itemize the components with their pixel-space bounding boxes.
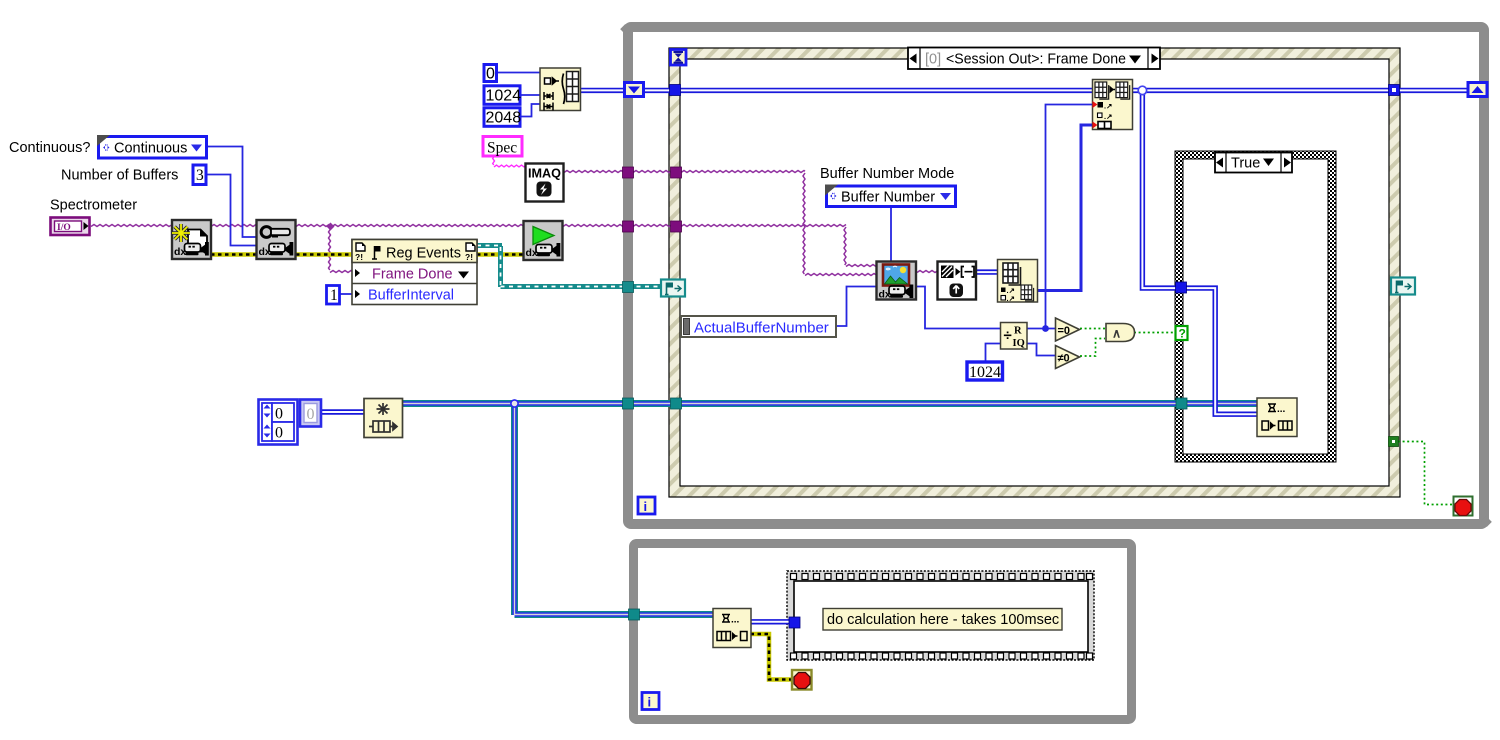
case structure border (True case) bbox=[1175, 151, 1336, 462]
case selector label True bbox=[1215, 153, 1292, 173]
svg-text:Continuous?: Continuous? bbox=[9, 140, 90, 156]
tunnel: array into event (blue solid) bbox=[670, 85, 681, 96]
tunnel: queue (loop2 border) bbox=[629, 609, 640, 620]
wire: index array out (thicker) bbox=[1037, 125, 1092, 291]
svg-text:?!: ?! bbox=[355, 252, 363, 262]
node IMAQdx Configure Acquisition bbox=[257, 220, 296, 259]
svg-text:0: 0 bbox=[275, 406, 283, 423]
event structure border bbox=[669, 48, 1400, 497]
tunnel: session wire (event border) bbox=[671, 221, 682, 232]
svg-text:<Session Out>: Frame Done: <Session Out>: Frame Done bbox=[946, 52, 1126, 68]
svg-text:Reg Events: Reg Events bbox=[386, 246, 461, 262]
svg-text:i: i bbox=[644, 499, 648, 514]
svg-text:.↗: .↗ bbox=[1007, 294, 1015, 303]
svg-text:True: True bbox=[1231, 156, 1260, 172]
wire: event registration refnum (teal dashed) RegEvents -> while -> dyn terminal bbox=[477, 246, 662, 288]
wire: IMAQ image (purple zigzag) IMAQ create -> event -> get buffer -> imagetoarray bbox=[564, 171, 937, 276]
enum constant Buffer Number bbox=[825, 185, 956, 207]
svg-text:÷: ÷ bbox=[1004, 327, 1012, 344]
array element constant 0 (grayed) bbox=[300, 400, 321, 427]
svg-text:0: 0 bbox=[275, 425, 283, 442]
svg-text:Spec: Spec bbox=[487, 140, 517, 157]
while loop 2 (processing loop) bbox=[634, 544, 1132, 720]
svg-text:Spectrometer: Spectrometer bbox=[50, 198, 137, 214]
while1 left shift register (down arrow) bbox=[625, 83, 644, 97]
node Enqueue Element bbox=[1257, 398, 1297, 437]
case selector tunnel ? bbox=[1176, 326, 1188, 341]
svg-text:ActualBufferNumber: ActualBufferNumber bbox=[694, 320, 829, 337]
while1 right shift register (up arrow) bbox=[1468, 83, 1487, 97]
svg-text:Continuous: Continuous bbox=[114, 141, 187, 157]
tunnel: event reg (while border, teal) bbox=[623, 282, 634, 293]
svg-text:1024: 1024 bbox=[486, 88, 522, 105]
svg-text:Buffer Number Mode: Buffer Number Mode bbox=[820, 166, 954, 182]
node IMAQ Create bbox=[526, 164, 564, 202]
numeric constants 0 / 1024 / 2048 bbox=[484, 65, 521, 127]
svg-text:i: i bbox=[648, 695, 652, 710]
red coercion arrow at open camera input bbox=[171, 221, 178, 232]
tunnel: boolean out of event (green, default dot) bbox=[1389, 437, 1399, 447]
svg-text:?: ? bbox=[1179, 327, 1186, 341]
node Dequeue Element bbox=[713, 609, 751, 648]
svg-text:.↗: .↗ bbox=[1104, 102, 1112, 111]
node IMAQdx Open Camera bbox=[172, 220, 211, 259]
svg-text:∧: ∧ bbox=[1112, 327, 1121, 341]
svg-text:3: 3 bbox=[196, 167, 204, 184]
I/O constant Spectrometer bbox=[51, 218, 90, 236]
array constant [0,0] bbox=[259, 400, 298, 445]
tunnel: array into sequence (blue solid) bbox=[789, 617, 800, 628]
wire: IMAQ session (purple zigzag) I/O -> open -> configure -> start -> event -> get buffer bbox=[91, 225, 876, 273]
local variable ActualBufferNumber bbox=[681, 316, 836, 337]
node Index Array bbox=[998, 260, 1038, 304]
svg-text:R: R bbox=[1014, 326, 1022, 337]
event selector label [0] Session Out: Frame Done bbox=[908, 48, 1160, 70]
event timeout terminal (hourglass) bbox=[671, 50, 687, 66]
svg-text:do calculation here - takes 10: do calculation here - takes 100msec bbox=[827, 612, 1059, 628]
node Obtain Queue bbox=[364, 399, 403, 438]
node Replace Array Subset bbox=[1093, 80, 1133, 130]
node IMAQdx Start Acquisition (green play) bbox=[524, 221, 563, 260]
svg-text:...: ... bbox=[1277, 404, 1286, 415]
node Quotient & Remainder bbox=[1001, 323, 1028, 350]
svg-text:1024: 1024 bbox=[969, 364, 1001, 381]
wire: error cluster (yellow/black dashed) bbox=[211, 255, 792, 680]
wire: string Spec -> IMAQ create (magenta) bbox=[493, 156, 525, 167]
while loop 1 (acquisition loop) bbox=[623, 27, 1489, 524]
numeric constant 1 bbox=[327, 286, 340, 305]
svg-text:=0: =0 bbox=[1058, 325, 1071, 337]
loop condition terminal (loop1 stop) bbox=[1454, 497, 1473, 516]
tunnel: queue (event border) bbox=[671, 398, 682, 409]
svg-text:Buffer Number: Buffer Number bbox=[841, 190, 935, 206]
wire: queue refnum (teal/blue) obtain queue -> loops bbox=[402, 400, 1257, 615]
tunnel: image wire (event border) bbox=[671, 167, 682, 178]
flat sequence structure (film strip) bbox=[787, 571, 1094, 660]
svg-text:1: 1 bbox=[330, 287, 338, 304]
svg-text:Frame Done: Frame Done bbox=[372, 267, 453, 283]
svg-text:...: ... bbox=[731, 615, 740, 626]
svg-text:?!: ?! bbox=[465, 252, 473, 262]
node IMAQdx Get Image (buffer) bbox=[877, 262, 917, 301]
string constant Spec bbox=[483, 137, 522, 157]
enum constant Continuous bbox=[97, 135, 207, 158]
free label: do calculation here - takes 100msec bbox=[823, 609, 1062, 631]
tunnel: queue (case border) bbox=[1176, 398, 1187, 409]
svg-text:I/O: I/O bbox=[57, 223, 71, 233]
node Reg Events (property/event registration) bbox=[352, 240, 477, 305]
wire: 1D array (double blue) build -> SR -> replace -> SR right; branch to enqueue bbox=[321, 86, 1467, 622]
tunnel: array out of event (blue, default dot) bbox=[1389, 85, 1400, 96]
loop condition terminal (loop2 stop) bbox=[792, 670, 812, 690]
junction diamond on session wire bbox=[327, 223, 335, 231]
node create 2D array (ramp/init array) bbox=[540, 68, 581, 111]
wire: booleans (green dotted) bbox=[1080, 329, 1453, 505]
svg-text:[0]: [0] bbox=[925, 52, 941, 68]
tunnel: queue (while border) bbox=[623, 398, 634, 409]
svg-text:IQ: IQ bbox=[1013, 338, 1025, 349]
numeric constant 1024 (divisor) bbox=[967, 362, 1003, 381]
svg-text:IMAQ: IMAQ bbox=[528, 167, 561, 181]
tunnel: session wire (while border) bbox=[623, 221, 634, 232]
svg-text:0: 0 bbox=[307, 406, 315, 423]
tunnel: image wire (while border) bbox=[623, 167, 634, 178]
svg-text:2048: 2048 bbox=[486, 110, 522, 127]
node IMAQ ImageToArray bbox=[938, 262, 977, 300]
comparison =0 bbox=[1056, 318, 1080, 341]
iteration terminal i (loop2) bbox=[642, 693, 659, 710]
svg-text:.↗: .↗ bbox=[1104, 112, 1112, 121]
wire: scalar blue wires bbox=[207, 73, 1092, 362]
svg-text:Number of Buffers: Number of Buffers bbox=[61, 168, 178, 184]
numeric constant 3 bbox=[193, 165, 206, 185]
svg-text:0: 0 bbox=[486, 66, 495, 83]
iteration terminal i (loop1) bbox=[638, 497, 655, 514]
comparison &#8800;0 bbox=[1056, 346, 1080, 369]
svg-text:BufferInterval: BufferInterval bbox=[368, 288, 454, 304]
dynamic event terminal (event right border) bbox=[1391, 278, 1415, 295]
AND gate bbox=[1106, 324, 1135, 342]
tunnel: array into case (blue solid) bbox=[1176, 282, 1187, 293]
svg-text:≠0: ≠0 bbox=[1058, 353, 1070, 365]
dynamic event terminal (event left border) bbox=[661, 280, 685, 297]
